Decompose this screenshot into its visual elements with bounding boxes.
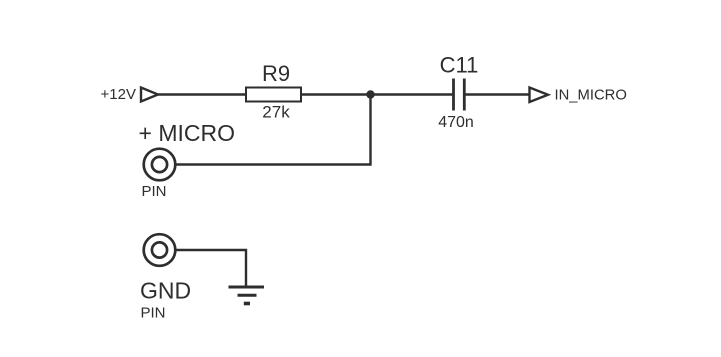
net label +12V xyxy=(101,86,136,103)
wire from GND pin to ground symbol xyxy=(176,250,246,286)
ground symbol xyxy=(229,287,265,304)
pin GND xyxy=(140,234,191,321)
svg-text:PIN: PIN xyxy=(142,183,167,200)
svg-text:+12V: +12V xyxy=(101,86,136,103)
svg-text:IN_MICRO: IN_MICRO xyxy=(555,88,627,104)
wire from resistor R9 to capacitor C11 xyxy=(301,93,453,95)
svg-text:GND: GND xyxy=(140,278,191,304)
svg-text:C11: C11 xyxy=(440,53,479,78)
capacitor C11 470n xyxy=(438,53,478,132)
wire from + MICRO pin up to junction xyxy=(176,95,371,165)
node junction xyxy=(366,90,374,98)
net label IN_MICRO xyxy=(555,88,627,104)
connector pin IN_MICRO (output triangle) xyxy=(530,88,549,103)
svg-text:PIN: PIN xyxy=(141,305,166,322)
wire from capacitor C11 to IN_MICRO connector xyxy=(466,93,530,95)
wire from +12V connector to resistor R9 xyxy=(158,93,246,95)
connector pin +12V (input triangle) xyxy=(141,88,158,102)
resistor R9 27k xyxy=(246,61,301,122)
pin + MICRO xyxy=(139,120,235,200)
svg-text:R9: R9 xyxy=(262,61,290,86)
svg-text:470n: 470n xyxy=(438,114,474,131)
svg-text:+ MICRO: + MICRO xyxy=(139,120,235,146)
svg-text:27k: 27k xyxy=(262,103,290,122)
